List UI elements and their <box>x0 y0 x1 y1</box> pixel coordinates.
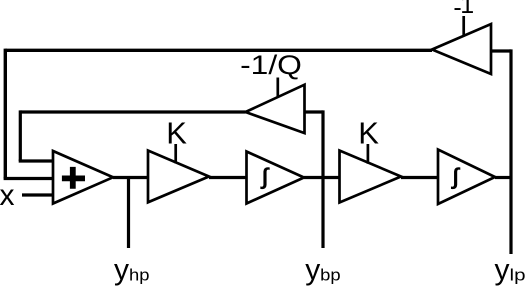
wire: x input into summer bottom input <box>22 193 54 196</box>
amplifier -1/Q (left-pointing) <box>246 85 305 133</box>
svg-text:1: 1 <box>460 0 474 19</box>
wire: y_hp branch vertical <box>127 178 130 249</box>
plus symbol inside summer <box>62 167 85 189</box>
amplifier K1 <box>148 151 209 203</box>
integrator 2 <box>438 150 495 205</box>
wire: outer feedback top horizontal from -1 output to left <box>5 49 432 52</box>
svg-text:-1/Q: -1/Q <box>240 50 302 80</box>
wire: -1 input from y_lp line <box>491 49 511 52</box>
wire: y_bp vertical <box>321 110 324 248</box>
wire: summer output to K1 <box>113 176 148 179</box>
tick from K1 label to triangle edge <box>174 144 177 163</box>
tick from label -1/Q to triangle edge <box>276 78 279 98</box>
summing amp (triangle with plus) <box>53 151 113 204</box>
amplifier -1 (left-pointing) <box>432 24 491 74</box>
wire: outer feedback into summer middle input <box>4 177 54 180</box>
svg-text:x: x <box>0 179 15 212</box>
integrator 1 <box>247 152 305 204</box>
amplifier K2 <box>340 151 402 203</box>
wire: integrator 1 output to K2 (y_bp tap) <box>304 176 340 179</box>
wire: -1/Q input from y_bp line <box>305 110 324 113</box>
wire: K1 output to integrator 1 <box>209 176 247 179</box>
wire: outer feedback left vertical <box>4 49 7 179</box>
wire: integrator 2 output to y_lp line <box>495 176 511 179</box>
wire: -1/Q output horizontal to left <box>20 110 245 113</box>
wire: K2 output to integrator 2 <box>401 176 438 179</box>
wire: inner feedback left vertical <box>19 110 22 161</box>
tick from K2 label to triangle edge <box>367 144 370 164</box>
tick from label -1 to triangle edge <box>462 16 465 37</box>
wire: inner feedback into summer top input <box>19 159 54 162</box>
wire: y_lp vertical <box>509 49 512 254</box>
